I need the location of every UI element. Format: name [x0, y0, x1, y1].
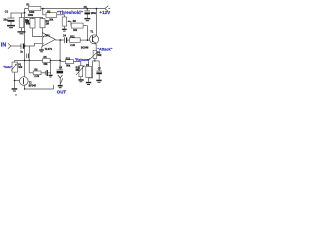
svg-text:"Threshold": "Threshold": [57, 10, 83, 15]
junction input node: [24, 45, 26, 47]
svg-text:BC548: BC548: [81, 47, 89, 50]
svg-text:TL071: TL071: [45, 47, 53, 51]
resistor R2v vertical (bias divider): [19, 18, 29, 28]
ground under C4b: [49, 75, 53, 78]
potentiometer P1 Threshold: [62, 17, 69, 26]
svg-text:"Attack": "Attack": [97, 47, 112, 51]
wire R2 right to P1: [57, 14, 64, 16]
svg-text:R6: R6: [73, 20, 77, 23]
resistor R5 feedback: [43, 56, 51, 66]
svg-text:C1: C1: [5, 11, 9, 14]
wire C4b to R8: [67, 39, 69, 41]
wire R7 top riser: [88, 59, 90, 66]
svg-text:2.2k: 2.2k: [70, 44, 75, 47]
wire emitter diagonal: [93, 41, 97, 51]
wire R3 bottom to minus input: [32, 28, 42, 36]
potentiometer P3 Attack: [90, 50, 102, 59]
wire R7 ground stub: [88, 78, 90, 82]
wire C6 diode stub: [59, 78, 61, 85]
wire P2 bottom stub: [80, 77, 82, 80]
resistor R8 to base: [69, 35, 80, 46]
junction FET source: [24, 88, 25, 89]
svg-text:50k: 50k: [44, 63, 49, 66]
svg-text:1u: 1u: [20, 50, 23, 53]
wire C1 stub top: [10, 13, 12, 18]
capacitor C4b (after R6): [45, 70, 48, 76]
svg-text:IN: IN: [1, 43, 6, 49]
svg-text:50k: 50k: [97, 54, 102, 57]
wire P3 bottom stub: [94, 58, 96, 61]
junction feedback left: [24, 60, 26, 62]
wire R6 left: [29, 72, 33, 74]
svg-text:OP1: OP1: [45, 33, 51, 37]
wire vertical right of R7: [89, 61, 93, 78]
junction R5 C4: [50, 60, 51, 61]
resistor R2 horizontal: [46, 10, 57, 21]
connector +12V: [105, 6, 110, 12]
wire C3 riser: [28, 46, 30, 53]
wire C1 stub bottom: [10, 22, 12, 25]
svg-text:100u: 100u: [91, 12, 97, 15]
svg-text:50k: 50k: [76, 69, 81, 72]
svg-text:"Release": "Release": [75, 58, 91, 62]
svg-text:R11: R11: [70, 35, 75, 38]
wire C4 ground stub: [50, 73, 52, 75]
ground under C7: [96, 80, 101, 83]
svg-text:20k: 20k: [49, 19, 54, 22]
resistor R6 (C3 leg): [33, 68, 41, 78]
svg-text:R11: R11: [66, 57, 71, 60]
wire C5 ground stub: [86, 14, 88, 18]
svg-text:10k: 10k: [73, 29, 78, 32]
resistor R5h upper (wiper to base): [71, 20, 83, 32]
wire C7 ground stub: [98, 74, 100, 80]
transistor T2 FET: [20, 77, 37, 88]
resistor R10 release: [65, 57, 73, 67]
ground under C1: [7, 25, 15, 28]
ground under R7: [86, 82, 92, 85]
svg-text:10k: 10k: [18, 66, 23, 69]
wire R2v top stub: [21, 13, 23, 18]
wire main vertical node: [24, 13, 26, 77]
junction rail collector: [96, 8, 98, 10]
wire C2 to plus input: [24, 43, 42, 46]
capacitor C5 supply: [84, 6, 97, 15]
svg-text:C4: C4: [63, 34, 67, 37]
wire R6 right to C4: [41, 72, 45, 74]
wire FET source up tick: [52, 85, 54, 89]
capacitor C2 input: [20, 44, 24, 54]
svg-text:OUT: OUT: [57, 90, 67, 95]
wire R5 right: [83, 25, 87, 27]
wire P3 wiper tail: [87, 58, 90, 60]
wire R1 left leg: [25, 9, 29, 13]
wire riser from rail to R2: [43, 9, 46, 15]
wire R4 bottom: [42, 28, 44, 37]
wire C5 top stub: [86, 9, 88, 11]
wire bias bus to R3 R4 tops: [25, 18, 43, 19]
svg-text:"Ratio": "Ratio": [3, 65, 13, 69]
wire bottom right bus: [93, 60, 100, 62]
resistor R4 vertical: [40, 19, 49, 28]
junction rail R1: [42, 8, 44, 10]
junction rail C5: [87, 8, 89, 10]
ground under C6: [58, 85, 63, 88]
connector IN: [8, 43, 11, 49]
potentiometer P4 Ratio: [11, 62, 23, 72]
wire op-amp ground stub: [41, 46, 43, 49]
svg-text:50k: 50k: [66, 64, 71, 67]
wire ratio pot top stub: [14, 60, 16, 62]
wire feedback line: [15, 59, 61, 61]
wire +12V rail: [41, 8, 105, 10]
capacitor C7: [96, 67, 102, 74]
svg-text:1M: 1M: [46, 23, 49, 26]
ground under P1: [62, 29, 67, 32]
wire collector riser: [93, 9, 97, 38]
svg-text:2.2k: 2.2k: [34, 75, 39, 78]
ground under ratio pot: [12, 88, 18, 91]
svg-text:10u: 10u: [3, 19, 8, 22]
wire C6 diag: [61, 78, 63, 83]
wire P1 riser top: [63, 15, 65, 17]
wire FET source down and right: [25, 85, 54, 89]
junction op-amp output: [60, 39, 62, 41]
wire release branch: [60, 61, 65, 63]
ground under C5: [84, 18, 90, 21]
wire release R right to P2: [74, 62, 81, 66]
capacitor C1: [3, 11, 14, 22]
junction base node: [87, 39, 89, 41]
svg-text:100k: 100k: [28, 14, 34, 17]
wire FET gate: [15, 79, 20, 81]
wire C4 right riser: [48, 60, 51, 72]
transistor T1: [81, 30, 99, 49]
wire R2v bottom stub: [21, 28, 23, 32]
wire C3 bottom stub: [28, 58, 30, 73]
wire base riser from upper resistor: [86, 26, 88, 40]
svg-text:+12V: +12V: [99, 10, 111, 15]
junction FET gate: [14, 80, 16, 82]
capacitor C4 output coupling: [63, 34, 67, 42]
svg-text:-: -: [43, 42, 44, 45]
ground under P2: [78, 79, 83, 82]
potentiometer P2 Release: [76, 65, 85, 76]
wire op-amp output: [55, 39, 64, 41]
resistor R1: [26, 4, 41, 15]
junction release branch: [59, 60, 61, 62]
ground under op-amp: [39, 49, 44, 52]
stray mark: [15, 94, 16, 95]
capacitor C6 detector: [57, 66, 64, 78]
op-amp OP1: [42, 33, 55, 51]
wire P1 bottom stub: [63, 26, 65, 29]
wire output riser down to C6: [59, 40, 61, 70]
wire IN to C2: [11, 45, 21, 47]
wire C7 riser: [98, 61, 100, 71]
wire P1 wiper to R5: [68, 21, 72, 25]
svg-text:C7: C7: [98, 67, 102, 70]
junction bias node: [24, 12, 26, 14]
svg-text:BF245: BF245: [29, 85, 37, 88]
junction P3 bottom: [94, 60, 95, 61]
resistor R7: [86, 64, 92, 78]
capacitor C3 feedback: [26, 53, 29, 58]
junction C3 feedback: [29, 60, 30, 61]
wire ratio pot bottom to ground: [14, 72, 16, 88]
resistor R3 vertical: [26, 14, 35, 28]
svg-text:C6: C6: [59, 66, 63, 69]
svg-text:50k: 50k: [26, 23, 31, 26]
wire C1 top rail: [11, 12, 25, 14]
ground under R2v: [18, 31, 26, 34]
wire R3 top stub: [31, 18, 33, 19]
svg-text:T1: T1: [90, 30, 93, 33]
wire R8 to transistor base: [80, 39, 90, 41]
